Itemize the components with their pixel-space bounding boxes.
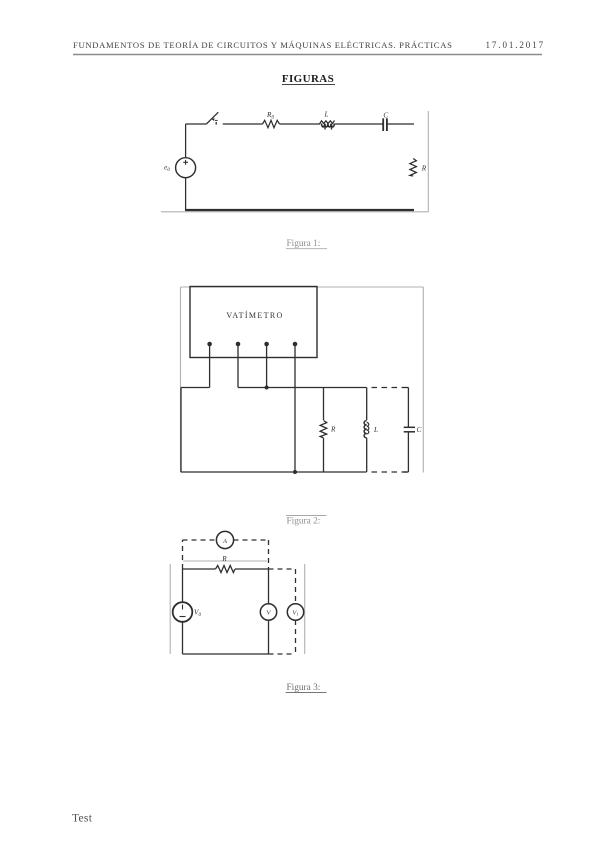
svg-text:L: L	[324, 111, 329, 119]
svg-text:V1: V1	[292, 610, 298, 617]
svg-text:V0: V0	[194, 609, 201, 619]
svg-text:C: C	[383, 112, 388, 120]
svg-text:R: R	[221, 555, 227, 563]
svg-text:R: R	[421, 165, 427, 173]
svg-text:V: V	[267, 610, 272, 617]
svg-text:FUNDAMENTOS DE TEORÍA DE CIRCU: FUNDAMENTOS DE TEORÍA DE CIRCUITOS Y MÁQ…	[73, 40, 453, 50]
svg-text:Figura 1:: Figura 1:	[287, 239, 321, 249]
svg-text:FIGURAS: FIGURAS	[282, 73, 334, 85]
svg-text:e0: e0	[164, 164, 170, 174]
svg-text:Figura 3:: Figura 3:	[287, 683, 321, 693]
svg-text:C: C	[417, 426, 422, 434]
svg-text:VATÍMETRO: VATÍMETRO	[226, 310, 283, 320]
svg-text:R0: R0	[266, 111, 274, 121]
svg-text:A: A	[222, 538, 227, 545]
svg-text:17.01.2017: 17.01.2017	[486, 40, 546, 50]
svg-text:R: R	[330, 426, 336, 434]
svg-text:L: L	[373, 426, 378, 434]
svg-text:Figura 2:: Figura 2:	[287, 517, 321, 527]
svg-text:Test: Test	[72, 813, 93, 825]
